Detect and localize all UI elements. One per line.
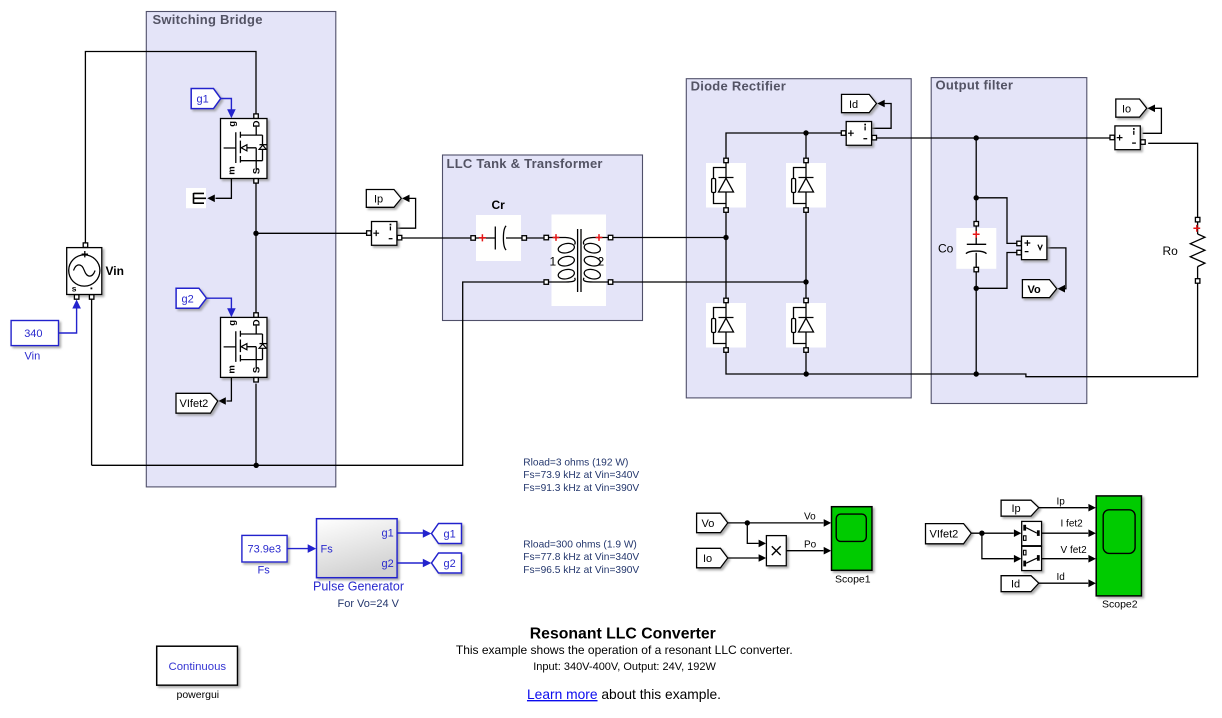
current measurement Ip bbox=[367, 222, 402, 246]
selector block 2 bbox=[1022, 546, 1042, 570]
polarity mark + (Ro) bbox=[1193, 225, 1200, 232]
svg-text:Io: Io bbox=[1122, 103, 1131, 115]
polarity mark + (winding 1) bbox=[553, 234, 560, 241]
svg-text:Fs=96.5 kHz at Vin=390V: Fs=96.5 kHz at Vin=390V bbox=[523, 565, 639, 576]
svg-text:powergui: powergui bbox=[177, 689, 220, 701]
from tag Ip (scope2) bbox=[1001, 500, 1039, 516]
diode D3 bbox=[706, 298, 746, 352]
svg-text:Cr: Cr bbox=[492, 198, 506, 212]
arrowhead into Vin s port bbox=[72, 300, 81, 309]
current measurement Id bbox=[841, 122, 876, 146]
AC voltage source Vin bbox=[67, 243, 102, 299]
arrowhead into Scope2 input 3 bbox=[1088, 555, 1096, 563]
wire product to Scope1 bbox=[787, 550, 824, 552]
goto tag VIfet2 bbox=[176, 393, 218, 413]
svg-text:Scope1: Scope1 bbox=[835, 574, 871, 586]
input tag g2 bbox=[176, 288, 206, 308]
svg-text:VIfet2: VIfet2 bbox=[930, 528, 959, 540]
svg-text:This example shows the operati: This example shows the operation of a re… bbox=[456, 643, 793, 657]
svg-text:Id: Id bbox=[1011, 578, 1020, 590]
wire Io tag to product bbox=[728, 557, 759, 559]
node junction top rail D2 bbox=[803, 130, 808, 135]
goto tag g2 bbox=[432, 553, 462, 573]
arrowhead into FET2 gate bbox=[227, 308, 236, 317]
wire FET2 m output to VIfet2 goto bbox=[227, 378, 232, 401]
svg-text:Resonant LLC Converter: Resonant LLC Converter bbox=[530, 625, 716, 642]
polarity mark + (Co) bbox=[973, 231, 980, 238]
arrowhead into selector 1 bbox=[1014, 529, 1022, 537]
svg-text:Fs=91.3 kHz at Vin=390V: Fs=91.3 kHz at Vin=390V bbox=[523, 483, 639, 494]
diode D2 bbox=[786, 158, 826, 212]
svg-text:Vo: Vo bbox=[804, 512, 816, 523]
svg-text:I fet2: I fet2 bbox=[1061, 518, 1084, 529]
arrowhead into g2 tag bbox=[423, 559, 432, 568]
arrowhead into Scope2 input 2 bbox=[1088, 529, 1096, 537]
goto tag g1 bbox=[432, 524, 462, 544]
svg-text:Vo: Vo bbox=[1028, 284, 1042, 296]
svg-text:For Vo=24 V: For Vo=24 V bbox=[338, 598, 400, 610]
svg-text:Switching Bridge: Switching Bridge bbox=[153, 12, 263, 27]
svg-text:LLC Tank & Transformer: LLC Tank & Transformer bbox=[447, 156, 603, 171]
wire Id tag to Scope2 bbox=[1039, 582, 1088, 584]
current measurement Io bbox=[1110, 126, 1145, 150]
svg-text:Scope2: Scope2 bbox=[1102, 599, 1138, 611]
svg-text:Fs: Fs bbox=[258, 565, 271, 577]
svg-text:73.9e3: 73.9e3 bbox=[248, 544, 282, 556]
subsystem area Diode Rectifier bbox=[686, 79, 911, 398]
capacitor Cr bbox=[471, 215, 527, 261]
arrowhead into Ip goto bbox=[402, 195, 410, 203]
wire D2 top to rail bbox=[805, 133, 807, 158]
wire constant 340 to Vin s input bbox=[59, 308, 77, 333]
node junction rectifier right leg bbox=[803, 279, 808, 284]
subsystem area LLC Tank & Transformer bbox=[443, 155, 643, 321]
wire Cr to transformer winding 1 bbox=[527, 237, 547, 239]
transformer T1 bbox=[544, 215, 613, 307]
wire rectifier top rail to Id measurement + bbox=[726, 133, 842, 158]
svg-text:g2: g2 bbox=[182, 293, 194, 305]
arrowhead into Scope1 input 2 bbox=[824, 547, 832, 555]
svg-text:Ip: Ip bbox=[1057, 496, 1066, 507]
annotation learn more bbox=[527, 687, 721, 702]
svg-text:g1: g1 bbox=[197, 94, 209, 106]
arrowhead into terminator bbox=[207, 195, 215, 203]
wire FET1 m output to terminator bbox=[216, 179, 232, 199]
svg-text:g1: g1 bbox=[444, 529, 456, 541]
wire Id measurement - to Io measurement + through filter bbox=[877, 137, 1111, 139]
node junction half-bridge midpoint bbox=[253, 231, 258, 236]
arrowhead into VIfet2 goto bbox=[218, 397, 226, 405]
node junction VIfet2 branch bbox=[979, 531, 984, 536]
node junction bottom rail D4 bbox=[804, 371, 809, 376]
arrowhead into Id goto bbox=[877, 100, 885, 108]
subsystem area Switching Bridge bbox=[146, 12, 335, 487]
svg-text:Io: Io bbox=[703, 553, 712, 565]
node junction Co bottom sense bbox=[974, 286, 979, 291]
wire filter capacitor branch top bbox=[975, 138, 977, 224]
svg-text:Ip: Ip bbox=[1012, 503, 1021, 515]
selector block 1 bbox=[1022, 521, 1042, 545]
subsystem area Output filter bbox=[931, 78, 1087, 404]
arrowhead into g1 tag bbox=[423, 529, 432, 538]
polarity mark + (winding 2) bbox=[596, 234, 603, 241]
goto tag Io bbox=[1116, 99, 1147, 117]
node junction bottom rail Co bbox=[974, 371, 979, 376]
arrowhead into product input 2 bbox=[759, 554, 767, 562]
svg-text:Output filter: Output filter bbox=[936, 78, 1014, 93]
node junction FET2 source / bottom rail bbox=[254, 463, 259, 468]
svg-text:VIfet2: VIfet2 bbox=[180, 398, 209, 410]
svg-text:340: 340 bbox=[24, 328, 42, 340]
svg-text:Vo: Vo bbox=[702, 518, 715, 530]
svg-text:Pulse Generator: Pulse Generator bbox=[313, 580, 404, 594]
svg-text:s: s bbox=[72, 284, 77, 294]
svg-text:Po: Po bbox=[804, 539, 817, 550]
wire voltage sense - branch bbox=[976, 253, 1017, 289]
from tag Vo bbox=[697, 513, 728, 533]
wire selector 1 to Scope2 bbox=[1042, 532, 1088, 534]
wire FET2 source to bottom rail bbox=[255, 384, 257, 466]
node junction rectifier left leg bbox=[723, 235, 728, 240]
from tag VIfet2 bbox=[926, 524, 972, 544]
polarity mark + (Cr) bbox=[479, 234, 486, 241]
arrowhead into Vo goto bbox=[1058, 285, 1066, 293]
arrowhead into Pulse Generator Fs bbox=[308, 544, 317, 553]
svg-text:g1: g1 bbox=[382, 527, 394, 539]
svg-text:Id: Id bbox=[849, 99, 858, 111]
svg-text:Vin: Vin bbox=[106, 264, 124, 278]
annotation operating point 2 bbox=[523, 540, 639, 576]
constant block 73.9e3 bbox=[242, 535, 287, 562]
wire Ip measurement - to Cr bbox=[402, 237, 471, 239]
wire Vin- down to bottom rail bbox=[91, 299, 93, 465]
arrowhead into FET1 gate bbox=[227, 109, 236, 118]
wire VIfet2 tag to selector 1 bbox=[971, 532, 1014, 534]
wire rectifier right column bbox=[805, 212, 807, 298]
wire Ip tag to Scope2 bbox=[1039, 507, 1088, 509]
scope Scope2 bbox=[1096, 496, 1141, 596]
svg-text:Rload=3 ohms (192 W): Rload=3 ohms (192 W) bbox=[523, 458, 628, 469]
product block bbox=[766, 536, 786, 566]
wire rectifier left column bbox=[725, 212, 727, 298]
svg-text:1: 1 bbox=[550, 255, 557, 269]
svg-text:Fs: Fs bbox=[321, 544, 334, 556]
wire Ro bottom to bottom rail bbox=[726, 283, 1198, 376]
wire Vo branch to product bbox=[747, 523, 758, 544]
svg-text:Ro: Ro bbox=[1163, 244, 1179, 258]
voltage measurement V bbox=[1017, 236, 1047, 260]
wire voltage measurement v to Vo goto bbox=[1047, 248, 1066, 289]
node junction filter top bbox=[974, 135, 979, 140]
arrowhead into Scope2 input 4 bbox=[1088, 579, 1096, 587]
diode D1 bbox=[706, 158, 746, 212]
node junction Co top sense bbox=[974, 195, 979, 200]
from tag Id (scope2) bbox=[1001, 576, 1039, 592]
svg-text:Vin: Vin bbox=[25, 351, 41, 363]
svg-text:Ip: Ip bbox=[374, 194, 383, 206]
wire transformer sec+ to rectifier left leg bbox=[611, 237, 727, 239]
arrowhead into product input 1 bbox=[759, 540, 767, 548]
wire Io measurement - to Ro bbox=[1148, 143, 1197, 217]
svg-text:Continuous: Continuous bbox=[169, 661, 227, 673]
wire Id measurement i output to Id goto bbox=[872, 104, 891, 129]
arrowhead into selector 2 bbox=[1014, 555, 1022, 563]
wire Co bottom to filter bottom bbox=[975, 272, 977, 374]
node junction Vo branch bbox=[745, 520, 750, 525]
annotation operating point 1 bbox=[523, 458, 639, 494]
subsystem Pulse Generator bbox=[317, 519, 398, 578]
wire g2 tag to FET2 gate bbox=[207, 298, 232, 309]
wire transformer sec- to rectifier right leg bbox=[611, 281, 807, 283]
terminator block bbox=[186, 188, 206, 208]
svg-text:Co: Co bbox=[938, 242, 954, 256]
goto tag Id bbox=[842, 94, 877, 112]
svg-text:Fs=73.9 kHz at Vin=340V: Fs=73.9 kHz at Vin=340V bbox=[523, 470, 639, 481]
wire selector 2 to Scope2 bbox=[1042, 558, 1088, 560]
svg-text:Learn more about this example.: Learn more about this example. bbox=[527, 687, 721, 702]
wire VIfet2 branch to selector 2 bbox=[982, 533, 1014, 559]
MOSFET FET2 bbox=[221, 313, 268, 382]
capacitor Co bbox=[956, 222, 996, 272]
svg-text:Fs=77.8 kHz at Vin=340V: Fs=77.8 kHz at Vin=340V bbox=[523, 552, 639, 563]
wire Pulse Generator g2 to tag bbox=[397, 562, 423, 564]
svg-text:2: 2 bbox=[598, 255, 605, 269]
wire Ip measurement i output to Ip goto bbox=[397, 198, 415, 228]
wire voltage sense + branch bbox=[976, 198, 1017, 244]
goto tag Vo bbox=[1022, 280, 1056, 298]
svg-text:Diode Rectifier: Diode Rectifier bbox=[691, 79, 787, 94]
wire Io measurement i output to Io goto bbox=[1143, 108, 1162, 133]
wire Vo tag to Scope1 bbox=[728, 522, 824, 524]
input tag g1 bbox=[191, 89, 221, 109]
wire midpoint to Ip current measurement + bbox=[256, 232, 367, 234]
wire g1 tag to FET1 gate bbox=[221, 99, 232, 111]
svg-text:Input: 340V-400V, Output: 24V,: Input: 340V-400V, Output: 24V, 192W bbox=[533, 661, 716, 673]
MOSFET FET1 bbox=[221, 114, 268, 183]
arrowhead into Io goto bbox=[1148, 105, 1156, 113]
svg-text:g2: g2 bbox=[382, 558, 394, 570]
from tag Io bbox=[697, 548, 728, 568]
arrowhead into Scope1 input 1 bbox=[824, 519, 832, 527]
svg-text:Id: Id bbox=[1057, 572, 1065, 583]
goto tag Ip bbox=[366, 190, 401, 208]
wire 73.9e3 to Pulse Generator bbox=[288, 548, 309, 550]
constant block 340 bbox=[11, 321, 58, 346]
diode D4 bbox=[786, 298, 826, 352]
scope Scope1 bbox=[832, 507, 873, 571]
svg-text:V fet2: V fet2 bbox=[1061, 545, 1088, 556]
wire bottom rail to LLC tank return bbox=[92, 282, 547, 465]
wire Pulse Generator g1 to tag bbox=[397, 532, 423, 534]
svg-text:Rload=300 ohms (1.9 W): Rload=300 ohms (1.9 W) bbox=[523, 540, 637, 551]
wire D4 bottom to rail bbox=[805, 350, 807, 374]
resistor Ro bbox=[1190, 217, 1205, 283]
wire FET1 source to FET2 drain bbox=[255, 183, 257, 313]
svg-text:g2: g2 bbox=[444, 558, 456, 570]
powergui block bbox=[157, 646, 238, 685]
wire Vin+ to FET1 drain bbox=[85, 52, 256, 244]
arrowhead into Scope2 input 1 bbox=[1088, 504, 1096, 512]
